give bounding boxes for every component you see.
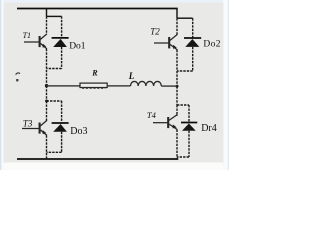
wire: top-right branch to Do2 <box>177 17 193 19</box>
svg-text:T4: T4 <box>147 110 157 120</box>
wire: bottom-left loop bottom dashed <box>47 151 62 153</box>
wire: left leg solid drop from top bus <box>46 9 48 17</box>
diode Do1 <box>52 38 69 47</box>
wire: right leg solid drop from top bus <box>176 9 178 19</box>
page background <box>0 0 229 170</box>
node: lower-left branch dot <box>45 100 48 103</box>
wire: Do4 cathode dashed drop <box>188 105 190 122</box>
wire: Do4 anode dashed <box>188 131 190 157</box>
wire: middle wire left segment <box>47 85 80 87</box>
wire: middle wire right segment <box>161 85 176 87</box>
wire: bottom-right loop bottom dashed <box>177 156 189 158</box>
wire: right leg dashed (emitter T4 to bottom bus) <box>176 130 178 159</box>
diode Do4 <box>181 123 197 131</box>
wire: right leg dashed to lower branch <box>176 86 178 105</box>
wire: right leg dashed (emitter T2 to mid node) <box>176 50 178 86</box>
transistor T2 <box>154 34 177 50</box>
node: mid-left junction dot <box>45 84 48 87</box>
svg-text:R: R <box>91 69 98 78</box>
left margin mark (dot) <box>16 79 18 81</box>
wire: top DC bus <box>17 8 178 10</box>
left edge strips <box>0 0 1 170</box>
wire: left leg dashed (collector T1) <box>46 16 48 34</box>
bottom white strip <box>3 163 223 171</box>
wire: top-right loop bottom dashed <box>177 70 193 72</box>
wire: middle wire center segment <box>107 85 130 87</box>
node: mid-right junction dot <box>176 85 179 88</box>
wire: top-left branch to Do1 <box>47 15 62 17</box>
svg-text:Dr4: Dr4 <box>201 123 217 134</box>
wire: Do2 anode dashed <box>192 47 194 71</box>
svg-text:T3: T3 <box>23 119 33 129</box>
svg-text:T1: T1 <box>23 31 31 40</box>
left margin mark (squiggle) <box>16 73 20 75</box>
svg-text:Do3: Do3 <box>70 126 87 137</box>
wire: Do1 anode dashed <box>61 47 63 69</box>
diode Do2 <box>184 38 201 47</box>
wire: bottom DC bus <box>17 158 178 160</box>
svg-text:Do2: Do2 <box>203 40 221 50</box>
inductor L <box>131 81 162 86</box>
right edge strips <box>224 0 228 170</box>
wire: top-left loop bottom dashed <box>47 68 62 70</box>
wire: Do3 cathode dashed drop <box>61 101 63 123</box>
wire: left leg dashed (emitter T1 down to mid node) <box>46 49 48 86</box>
wire: lower-left branch to Do3 (dashed) <box>47 100 62 102</box>
wire: left leg dashed (collector T3) <box>46 101 48 121</box>
resistor R <box>80 83 107 88</box>
transistor T4 <box>153 115 177 130</box>
wire: lower-right branch to Do4 (dashed) <box>177 104 189 106</box>
wire: right leg dashed (collector T2) <box>176 18 178 34</box>
wire: Do3 anode dashed <box>61 132 63 153</box>
wire: left leg dashed to lower branch <box>46 86 48 101</box>
transistor T3 <box>22 120 47 135</box>
wire: Do1 cathode dashed drop <box>61 16 63 37</box>
svg-text:Do1: Do1 <box>69 42 86 52</box>
wire: right leg dashed (collector T4) <box>176 105 178 116</box>
top edge light strip <box>0 0 229 3</box>
wire: left leg dashed (emitter T3 to bottom bus) <box>46 135 48 159</box>
wire: Do2 cathode dashed drop <box>192 18 194 38</box>
svg-text:T2: T2 <box>150 27 160 37</box>
diode Do3 <box>52 123 69 132</box>
svg-text:L: L <box>128 71 135 81</box>
transistor T1 <box>24 34 47 49</box>
